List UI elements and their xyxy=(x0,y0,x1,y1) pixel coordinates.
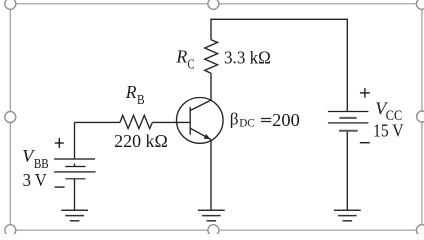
svg-text:220 kΩ: 220 kΩ xyxy=(114,131,168,151)
svg-text:3 V: 3 V xyxy=(23,170,47,190)
svg-text:C: C xyxy=(188,57,195,72)
svg-text:R: R xyxy=(175,46,187,66)
svg-text:3.3 kΩ: 3.3 kΩ xyxy=(224,47,271,67)
svg-text:DC: DC xyxy=(239,118,255,130)
svg-text:15 V: 15 V xyxy=(373,120,404,140)
svg-text:200: 200 xyxy=(272,110,300,130)
svg-text:β: β xyxy=(230,110,239,129)
svg-text:B: B xyxy=(137,93,145,108)
svg-text:R: R xyxy=(125,82,137,102)
